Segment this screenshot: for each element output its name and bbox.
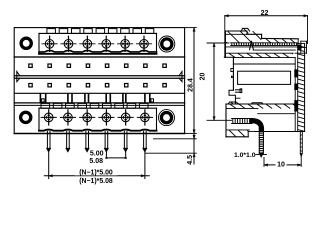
svg-text:22: 22	[261, 10, 269, 17]
side view: deck top raised tab	[251, 103, 263, 104]
side view: screw nut outline	[295, 41, 307, 53]
front view: lower vent squares	[29, 84, 166, 87]
side view: top deck top face left	[225, 30, 247, 32]
side view: bottom cavity line	[227, 129, 250, 131]
front view: screw terminal 1 bottom row	[41, 110, 56, 125]
dimension 22 left arrow	[225, 15, 229, 17]
front view: screw terminal 2 top row	[61, 36, 76, 51]
side view: top screw under line	[225, 46, 297, 48]
dimension 22 line	[225, 15, 308, 17]
side view: right wall line A	[294, 58, 296, 132]
dimension 10 line	[264, 164, 301, 166]
side view: bottom deck hatch band	[227, 104, 295, 108]
front view: bottom plug wavy bottom edge	[39, 130, 157, 131]
dimension 28.4 top extension	[185, 27, 197, 29]
side view: top deck step	[261, 34, 263, 38]
front view: screw terminal 4 bottom row	[99, 110, 114, 125]
front view: screw terminal 6 top row	[136, 36, 151, 51]
front view: solder pins	[47, 131, 148, 152]
dimension 4.5 upper extension	[154, 138, 197, 140]
side view: top screw shank	[231, 43, 298, 46]
svg-text:20: 20	[200, 73, 207, 81]
side view: bottom deck bottom line	[226, 136, 248, 138]
dimension text 10	[276, 161, 287, 169]
side view: bent pin tip	[259, 153, 263, 157]
dimension (N-1) text mask	[75, 169, 118, 176]
side view: wall step	[229, 90, 235, 104]
front view: middle section bottom line	[14, 92, 184, 94]
front view: bottom-right mounting hole	[159, 110, 175, 126]
dimension 5.08 bracket	[106, 152, 127, 159]
dimension 22 left extension	[224, 16, 226, 58]
dimension 20 bottom extension	[207, 119, 232, 121]
side view: contact pad upper	[295, 70, 298, 77]
front view: bottom plug inner rectangle	[39, 108, 157, 130]
side view: top deck hatch right	[263, 39, 295, 42]
side view: cavity top line	[233, 63, 295, 65]
dimension 28.4 bottom extension	[185, 132, 197, 134]
side view: contact pad lower	[295, 101, 298, 111]
side view: bent pin threaded	[259, 128, 263, 154]
front view: bottom housing bottom line	[14, 133, 184, 135]
side view: top deck left shelf	[224, 56, 233, 58]
dimension 28.4 top arrow	[193, 28, 195, 32]
dimension text 22	[261, 10, 269, 17]
front view: rail left arrowhead	[17, 72, 20, 82]
dimension 10 right extension	[300, 158, 302, 167]
dimension (N-1) right extension	[144, 152, 146, 179]
svg-text:(N−1)*5.08: (N−1)*5.08	[79, 178, 113, 185]
side view: bottom deck inner line	[226, 108, 295, 113]
dimension 28.4 bottom arrow	[193, 130, 195, 134]
dimension (N-1) line	[44, 175, 149, 177]
dimension 20 top extension	[207, 42, 229, 44]
side view: top deck mid line A	[225, 52, 293, 54]
side view: top deck mid line B	[234, 57, 296, 59]
front view: screw terminal 5 bottom row	[118, 110, 133, 125]
front view: top housing outer rectangle	[14, 28, 184, 57]
side view: top deck inner line	[225, 33, 247, 35]
side view: top deck mid step	[247, 31, 262, 34]
front view: screw terminal 2 bottom row	[60, 110, 75, 125]
side view: top deck hatch left	[226, 31, 261, 42]
front view: bottom plug ribs	[41, 103, 148, 108]
side view: top deck inner wall	[232, 57, 234, 90]
front view: center rail lower line	[14, 77, 184, 79]
front view: center rail upper line	[14, 75, 184, 77]
dimension (N-1) left arrow	[49, 175, 53, 177]
side view: clamp pawl	[250, 41, 254, 50]
dimension (N-1) right arrow	[141, 175, 145, 177]
dimension 20 top arrow	[213, 43, 215, 47]
side view: wall notch lower	[232, 76, 234, 77]
dimension 22 right arrow	[304, 15, 308, 17]
side view: screw end blob	[298, 45, 301, 49]
front view: screw terminal 4 top row	[99, 36, 114, 51]
side view: bottom foot	[248, 131, 255, 136]
side view: bottom latch nub	[228, 102, 239, 104]
front view: top plug lower edge	[39, 53, 157, 55]
dimension 10 right arrow	[298, 164, 302, 166]
side view: screw bend	[252, 119, 264, 130]
side view: cavity rectangle	[238, 71, 291, 84]
dimension text 4.5	[187, 155, 194, 165]
svg-text:(N−1)*5.00: (N−1)*5.00	[79, 170, 113, 177]
svg-text:4.5: 4.5	[187, 155, 194, 165]
side view: bottom deck top face	[226, 103, 295, 105]
svg-text:28.4: 28.4	[187, 78, 194, 92]
front view: bottom housing top lines	[14, 103, 184, 106]
dimension 4.5 upper arrow	[193, 135, 195, 139]
side view: bottom screw shank	[232, 119, 252, 124]
dimension 22 right extension	[307, 16, 309, 44]
dimension 1.0*1.0 extension	[256, 154, 267, 156]
front view: lower strip slot bars	[40, 94, 149, 103]
dimension text (N-1)*5.08	[79, 178, 113, 185]
front view: top housing bottom line	[14, 56, 184, 58]
side view: PCB bottom line	[255, 131, 305, 133]
side view: right corner vertical	[297, 39, 299, 44]
dimension 20 line	[213, 43, 215, 120]
side view: bottom deck bottom hatch	[227, 131, 248, 137]
side view: top latch nub	[241, 28, 249, 33]
side view: right wall line B	[297, 44, 299, 132]
front view: top-left mounting hole	[21, 38, 31, 48]
dimension text 28.4	[187, 78, 194, 92]
front view: screw terminal 5 top row	[118, 36, 133, 51]
side view: top deck mid hatch	[226, 54, 293, 58]
front view: top plug inner rectangle	[39, 33, 157, 54]
dimension (N-1) left extension	[48, 152, 50, 179]
front view: screw terminal 1 top row	[42, 36, 57, 51]
side view: wall notch upper	[231, 69, 234, 72]
side view: clamp shelf line	[253, 49, 295, 51]
side view: top deck top face right	[262, 37, 299, 39]
svg-text:1.0*1.0: 1.0*1.0	[234, 152, 256, 159]
dimension 10 left extension	[263, 158, 265, 167]
front view: rail right arrowhead	[179, 72, 182, 82]
svg-text:5.08: 5.08	[89, 158, 103, 165]
svg-text:5.00: 5.00	[90, 150, 104, 157]
dimension text 20	[200, 73, 207, 81]
front view: bottom-left mounting hole	[21, 112, 31, 122]
front view: top plug ribs	[47, 29, 154, 34]
front view: bottom housing sides	[14, 103, 184, 133]
front view: screw terminal 3 bottom row	[80, 110, 95, 125]
front view: screw terminal 3 top row	[80, 36, 95, 51]
side view: right solder pin	[300, 132, 302, 158]
dimension text 1.0*1.0	[234, 152, 256, 159]
side view: top deck left face	[224, 31, 226, 57]
front view: lower strip sides	[14, 93, 184, 103]
dimension 20 bottom arrow	[213, 117, 215, 121]
dimension 4.5 lower arrow	[193, 153, 195, 157]
dimension text 5.00	[90, 150, 104, 157]
side view: bottom deck left face	[225, 104, 227, 137]
front view: lower strip right notch	[151, 99, 154, 102]
front view: top-right mounting hole	[159, 36, 175, 52]
front view: screw terminal 6 bottom row	[137, 110, 152, 125]
dimension text (N-1)*5.00	[79, 170, 113, 177]
side view: inter-deck bracket	[235, 89, 241, 98]
front view: lower strip left notch	[42, 99, 45, 102]
dimension text 5.08	[89, 158, 103, 165]
front view: middle section sides	[14, 57, 184, 93]
dimension 4.5 lower extension	[145, 152, 196, 154]
side view: contact pad middle	[295, 84, 298, 90]
svg-text:10: 10	[277, 161, 285, 168]
side view: PCB cross-section bar	[298, 44, 305, 132]
front view: top plug scalloped edge	[39, 50, 157, 52]
front view: upper vent squares	[29, 64, 166, 67]
dimension 10 left arrow	[264, 164, 268, 166]
dimension 28.4 line	[193, 28, 195, 164]
